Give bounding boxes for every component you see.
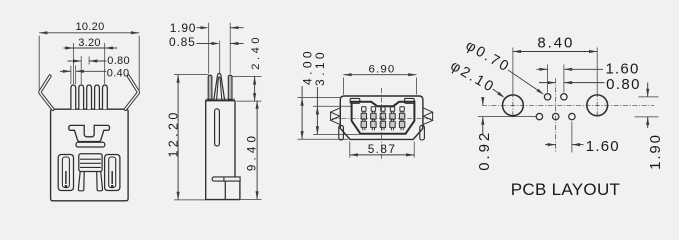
left mounting hook (40, 76, 53, 109)
pin holes bottom row (536, 113, 542, 119)
svg-text:5.87: 5.87 (368, 142, 397, 156)
left leg of ladder block (78, 172, 84, 191)
dimension 1.90 (170, 21, 244, 35)
dimension 1.60 top (537, 61, 640, 93)
solder tail bar (212, 177, 240, 181)
svg-text:1.90: 1.90 (170, 21, 197, 35)
dimension 8.40 hole span (513, 34, 597, 93)
dimension 4.00 shell height (298, 48, 349, 139)
right prong (228, 75, 232, 99)
svg-text:2.40: 2.40 (250, 34, 262, 70)
bottom-left foot (339, 126, 344, 140)
centerlines (381, 88, 383, 161)
right mounting hook (125, 76, 138, 109)
view 2: side view (206, 73, 240, 199)
five contacts (361, 107, 366, 131)
bottom-right foot (420, 126, 425, 140)
right leg of ladder block (97, 172, 103, 191)
svg-text:0.85: 0.85 (169, 35, 196, 49)
dimension 3.10 opening height (313, 49, 360, 134)
dimension 0.80 pin pitch (68, 55, 130, 67)
side body (206, 101, 240, 200)
svg-text:6.90: 6.90 (369, 63, 396, 75)
left solder pod (58, 155, 73, 191)
top-right inner rect (405, 98, 415, 103)
locator peg (224, 181, 226, 200)
svg-text:PCB LAYOUT: PCB LAYOUT (511, 180, 620, 199)
view 4: PCB layout (482, 78, 654, 153)
svg-text:10.20: 10.20 (75, 21, 104, 33)
svg-text:1.60: 1.60 (586, 138, 620, 155)
dimension 5.87 opening width (350, 142, 414, 158)
right mounting hole (587, 95, 608, 116)
label dia 0.70 with leader (463, 38, 544, 95)
svg-text:8.40: 8.40 (537, 34, 574, 51)
left prong (208, 75, 212, 99)
label dia 2.10 with leader (448, 58, 505, 98)
svg-text:0.80: 0.80 (606, 76, 641, 93)
svg-text:0.92: 0.92 (476, 130, 493, 171)
dimension 10.20 overall width (39, 21, 139, 90)
hole crosshairs (512, 93, 514, 119)
dimension 1.60 bottom (545, 122, 620, 156)
right side tab (423, 108, 433, 125)
dimension 2.40 prong height (233, 34, 262, 101)
interior middle bar (76, 142, 105, 147)
right solder pod (105, 155, 120, 191)
side slot (215, 109, 220, 146)
pin holes top row (544, 94, 550, 100)
left side tab (331, 108, 341, 125)
interior ladder contact block (79, 154, 102, 172)
interior latch tab (hat shape) (69, 125, 110, 141)
dimension 3.20 pin span (64, 37, 118, 50)
svg-text:0.80: 0.80 (107, 55, 130, 67)
left mounting hole (503, 95, 524, 116)
svg-text:1.90: 1.90 (647, 133, 664, 170)
svg-text:3.20: 3.20 (78, 37, 101, 49)
horizontal centerline (482, 104, 654, 106)
dimension 0.40 pin width (60, 67, 129, 79)
view 1: front view of mini-USB connector (40, 76, 138, 201)
inner opening (thick) (352, 102, 415, 134)
dimension 1.90 (635, 83, 664, 170)
dimension 12.20 overall height (167, 75, 209, 200)
view 3: mating face view (331, 88, 433, 161)
dimension 9.40 body height (237, 101, 262, 200)
bent pin (tent) (214, 73, 225, 100)
top-left inner rect (350, 98, 360, 103)
dimension 0.80 top (539, 76, 641, 93)
outer shell (340, 96, 423, 139)
vertical centerline (555, 78, 557, 153)
dimension 0.92 (476, 97, 536, 171)
dimension 6.90 (343, 63, 416, 94)
extension lines for 1.90 / 0.85 (209, 23, 231, 74)
five terminal pins on top (71, 85, 76, 109)
svg-text:3.10: 3.10 (313, 49, 327, 86)
connector body (front) (51, 109, 129, 201)
dimension 0.85 (169, 35, 243, 49)
svg-text:0.40: 0.40 (107, 67, 130, 79)
extension lines of pin dimensions (71, 43, 105, 84)
